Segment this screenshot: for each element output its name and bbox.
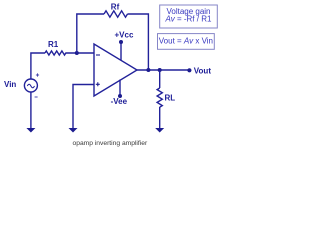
svg-text:opamp inverting amplifier: opamp inverting amplifier — [73, 140, 148, 147]
annotation box: voltage gain — [160, 5, 218, 28]
terminal -Vee — [118, 80, 122, 99]
svg-text:Rf: Rf — [111, 2, 120, 11]
op-amp plus sign — [96, 82, 100, 86]
terminal Vout dot — [187, 68, 191, 72]
wire output — [137, 69, 189, 71]
resistor RL — [157, 88, 162, 107]
ground (Vin) — [26, 128, 35, 133]
source polarity marks — [35, 73, 40, 97]
svg-text:-Vee: -Vee — [111, 97, 128, 106]
node A junction dot — [75, 51, 79, 55]
terminal +Vcc — [119, 40, 123, 61]
svg-text:Vin: Vin — [4, 80, 16, 89]
svg-text:Vout = Av x Vin: Vout = Av x Vin — [159, 37, 213, 46]
source Vin (AC source circle) — [24, 79, 37, 92]
svg-text:Vout: Vout — [194, 67, 212, 76]
svg-text:R1: R1 — [48, 40, 59, 49]
ground (RL) — [155, 128, 164, 133]
wire non-inverting input to ground — [73, 85, 94, 129]
annotation box: Vout formula — [158, 34, 215, 50]
wire Rf down to output node — [128, 14, 149, 70]
wire RL to ground — [159, 107, 161, 129]
node C junction dot (RL tap) — [158, 68, 162, 72]
svg-text:+Vcc: +Vcc — [115, 30, 134, 39]
resistor R1 — [45, 51, 66, 55]
wire R1 to inverting input — [65, 52, 94, 54]
node B junction dot (feedback/output) — [146, 68, 150, 72]
resistor Rf — [104, 11, 128, 17]
wire Vin top to R1 — [31, 53, 45, 79]
wire Vin bottom to ground — [30, 92, 32, 129]
svg-text:RL: RL — [165, 93, 176, 102]
op-amp U1 — [94, 44, 137, 96]
wire feedback up and across — [77, 14, 104, 53]
ground (non-inverting input) — [69, 128, 78, 133]
op-amp minus sign — [96, 54, 100, 56]
svg-text:Av = -Rf / R1: Av = -Rf / R1 — [165, 15, 212, 24]
wire output node down to RL — [159, 70, 161, 88]
